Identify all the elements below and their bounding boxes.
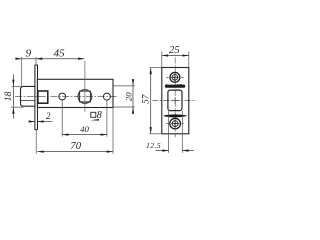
top screw: inner circle (172, 75, 178, 81)
12.5 ext lines from opening edges (168, 111, 170, 153)
dim 9 left arrow (outside, pointing right) (15, 58, 21, 60)
faceplate front outline (162, 68, 189, 134)
bottom screw: side centerline dashes (166, 123, 168, 125)
70 ext line left (faceplate) (35, 130, 37, 154)
spindle opening center cross (172, 100, 179, 102)
70 ext line right (case end) (112, 108, 114, 154)
25 ext lines (161, 52, 163, 68)
18 top arrow (above, pointing down) (12, 80, 14, 87)
40 left arrow (62, 133, 68, 135)
label square-8 (spindle) (91, 112, 96, 117)
dimension 57 (left, vertical) (150, 68, 152, 134)
leader under square-8 (91, 119, 100, 121)
node: hole C1 extension line down to 40-dim (61, 100, 63, 137)
ext line faceplate front (35, 57, 37, 65)
dimension 25 (top) (162, 55, 189, 57)
18 bottom arrow (below, pointing up) (12, 107, 14, 114)
horizontal centerline (152, 100, 196, 102)
spindle hole circle (78, 90, 92, 104)
20 bottom arrow (below ext, pointing up) (132, 107, 134, 114)
latch bolt (21, 86, 36, 106)
dimension 2 (faceplate thickness) (29, 121, 36, 123)
dimension 20 (right of case, vertical) (132, 79, 134, 114)
dimension 9 and 45 shared line (16, 58, 85, 60)
svg-text:20: 20 (123, 92, 133, 101)
18 ext line top (12, 85, 22, 87)
bolt tail notch (thick) (38, 91, 48, 103)
2 left arrow (outside, pointing right) (29, 120, 35, 122)
dimension 18 (left, vertical) (12, 75, 14, 119)
node: hole C2 extension line down to 40-dim (106, 100, 108, 136)
svg-text:18: 18 (3, 92, 14, 102)
dimension 70 (37, 151, 113, 153)
2 right arrow (outside, pointing left) (37, 120, 43, 122)
12.5 left arrow (outside, pointing right) (162, 149, 168, 151)
case body (37, 79, 113, 107)
20 ext line top (114, 85, 135, 87)
bottom screw: outer ring (170, 118, 181, 129)
lens bar (bolt slot) (164, 114, 187, 117)
top screw: side centerline dashes (166, 76, 168, 78)
spindle square 8mm (80, 91, 91, 102)
12.5 dim line tails (156, 150, 169, 152)
svg-text:57: 57 (140, 94, 150, 104)
central spindle opening (rounded square) (168, 90, 182, 111)
20 ext line bottom (114, 106, 135, 108)
25 right arrow (183, 54, 189, 56)
svg-text:25: 25 (169, 45, 180, 56)
svg-text:9: 9 (26, 48, 32, 60)
dim 45 right arrow (inside, pointing right) (78, 58, 84, 60)
25 left arrow (162, 54, 168, 56)
bottom screw: phillips cross (171, 123, 179, 125)
vertical centerline (174, 58, 176, 138)
svg-text:45: 45 (54, 47, 66, 59)
70 right arrow (107, 150, 113, 152)
svg-text:2: 2 (46, 111, 51, 121)
Armadillo brand bar (165, 85, 185, 88)
dimension 40 (62, 134, 107, 136)
ext line bolt tip (21, 57, 23, 86)
18 ext line bottom (11, 106, 24, 108)
bottom screw: inner circle (172, 121, 178, 127)
57 bottom arrow (150, 127, 152, 134)
svg-text:40: 40 (80, 124, 89, 134)
hole C2 (fixing pin) (103, 93, 110, 100)
top screw: outer ring (170, 72, 180, 82)
dim 9 right arrow / 45 left arrow (pointing left) (36, 58, 42, 60)
top screw: phillips cross (171, 76, 178, 78)
12.5 right arrow (outside, pointing left) (182, 149, 188, 151)
57 ext lines (150, 67, 162, 69)
spindle vertical centerline (84, 61, 86, 112)
svg-text:70: 70 (70, 141, 81, 152)
svg-text:Armadillo: Armadillo (164, 83, 185, 88)
20 top arrow (above ext, pointing down) (132, 79, 134, 86)
bolt bevel edge (21, 100, 35, 102)
faceplate (side view, 2mm thick) (34, 65, 36, 130)
40 right arrow (101, 133, 107, 135)
svg-text:12.5: 12.5 (146, 141, 161, 150)
57 top arrow (150, 68, 152, 75)
hole C1 (retractor pin) (59, 93, 66, 100)
70 left arrow (37, 150, 43, 152)
centerline horizontal (bolt/holes axis) (15, 95, 118, 97)
